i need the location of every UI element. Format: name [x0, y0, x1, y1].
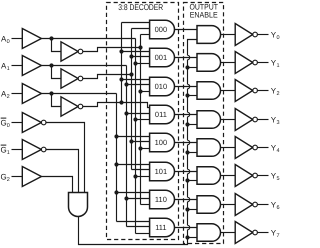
wires: decoder gate 001 input stubs: [122, 52, 150, 64]
wires: decoder gate 111 input stubs: [117, 222, 150, 234]
wires: decoder gate 100 input stubs: [117, 137, 150, 149]
svg-text:3: 3: [277, 120, 280, 126]
inverter A2n: [61, 97, 83, 116]
enable AND gate (3-input, G): [69, 193, 88, 217]
output enable AND gate row Y1: [197, 54, 221, 72]
wires: decoder gate 110 input stubs: [117, 193, 150, 205]
wire decoder 100 output: [175, 142, 198, 144]
wire Y7 output lead: [257, 232, 268, 234]
wire A2 complement line jogging into gate 011 input: [83, 103, 150, 108]
output inverter Y6: [235, 194, 257, 216]
label: input A0: [1, 34, 10, 45]
label: enable input G0 (active low): [1, 118, 10, 129]
wire A1 node to inverter: [52, 66, 62, 79]
wire decoder 101 output: [175, 171, 198, 173]
wire Y3 output lead: [257, 119, 268, 121]
wires: decoder gate 010 input stubs: [122, 80, 150, 92]
node A1 junction dot: [49, 63, 53, 67]
wire G2 to enable AND: [41, 177, 72, 193]
output enable AND gate row Y3: [197, 111, 220, 129]
svg-text:000: 000: [155, 25, 168, 34]
decoder AND gate 000: [150, 20, 175, 39]
decoder AND gate 110: [150, 190, 175, 209]
wires: decoder gate 000 input stubs: [122, 23, 150, 35]
buffer A0 (non-inverting): [22, 29, 41, 49]
label: enable input G1 (active low): [1, 145, 10, 156]
output inverter Y4: [235, 137, 257, 159]
output enable AND gate row Y4: [197, 139, 220, 157]
output inverter Y3: [235, 109, 257, 131]
rail A1 complement (vertical): [131, 29, 133, 170]
label: OUTPUT ENABLE title: [189, 3, 218, 20]
svg-text:G: G: [1, 172, 7, 181]
svg-text:100: 100: [155, 138, 168, 147]
enable rail junction dots: [185, 65, 189, 239]
decoder AND gate 001: [150, 48, 175, 67]
wire A1 input lead: [12, 65, 23, 67]
wires: decoder gate 011 input stubs: [127, 114, 150, 120]
label: output Y3: [271, 115, 280, 126]
wire OE gate Y3 output: [221, 119, 236, 121]
wire OE gate Y6 output: [221, 204, 236, 206]
wire OE gate Y0 output: [221, 34, 236, 36]
wire Y0 output lead: [257, 34, 268, 36]
output inverter Y7: [235, 222, 257, 244]
wire G0 input lead: [12, 122, 23, 124]
label: input A2: [1, 89, 10, 100]
output enable AND gate row Y0: [197, 26, 221, 44]
wire G2 input lead: [12, 176, 23, 178]
output inverter Y2: [235, 80, 257, 102]
label: enable input G2: [1, 172, 10, 183]
rail A0 true junction dots: [133, 61, 137, 178]
inverter A1n: [61, 69, 83, 88]
svg-text:G: G: [1, 118, 7, 127]
output enable AND gate row Y5: [197, 167, 220, 185]
wire A0 input lead: [12, 38, 23, 40]
svg-text:1: 1: [277, 63, 280, 69]
svg-text:0: 0: [7, 39, 10, 45]
svg-text:3:8 DECODER: 3:8 DECODER: [118, 2, 163, 12]
wire decoder 001 output: [175, 57, 198, 59]
wires: decoder gate 101 input stubs: [117, 165, 150, 177]
wire G0 to enable AND: [46, 123, 85, 193]
wire A0 node to inverter: [52, 39, 62, 52]
wire Y5 output lead: [257, 175, 268, 177]
wire decoder 011 output: [175, 114, 198, 116]
wire Y1 output lead: [257, 62, 268, 64]
svg-text:111: 111: [155, 223, 166, 232]
svg-text:011: 011: [155, 110, 167, 119]
rail A0 complement junction dots: [138, 45, 142, 150]
svg-text:110: 110: [155, 195, 167, 204]
label: output Y6: [271, 200, 280, 211]
inverter G0: [22, 113, 46, 133]
wire Y6 output lead: [257, 204, 268, 206]
svg-text:5: 5: [277, 176, 280, 182]
label: output Y1: [271, 58, 280, 69]
svg-text:2: 2: [7, 94, 10, 100]
node A0 junction dot: [49, 36, 53, 40]
decoder AND gate 010: [150, 77, 175, 96]
rail A1 true (vertical): [126, 66, 128, 227]
buffer A1 (non-inverting): [22, 56, 41, 76]
svg-text:ENABLE: ENABLE: [190, 11, 218, 20]
inverter A0n: [61, 42, 83, 61]
wire A0 complement line with jog: [83, 48, 141, 52]
output inverter Y1: [235, 52, 257, 74]
svg-text:7: 7: [277, 233, 280, 239]
decoder AND gate 011: [150, 105, 175, 124]
wire enable AND output to bottom rail: [79, 217, 188, 245]
wire decoder 010 output: [175, 86, 198, 88]
wire OE gate Y4 output: [221, 147, 236, 149]
wire Y2 output lead: [257, 90, 268, 92]
wire OE gate Y1 output: [221, 62, 236, 64]
wires: enable stubs to output AND gates: [188, 68, 198, 238]
wire A2 node to inverter: [52, 94, 62, 107]
svg-text:010: 010: [155, 82, 168, 91]
svg-text:4: 4: [277, 148, 280, 154]
output inverter Y0: [235, 24, 257, 46]
buffer G2: [22, 167, 41, 187]
dashed box: 3:8 decoder section: [107, 3, 179, 240]
svg-text:0: 0: [7, 123, 10, 129]
svg-text:101: 101: [155, 167, 168, 176]
svg-text:2: 2: [7, 177, 10, 183]
wire G1 to enable AND: [46, 150, 79, 193]
dashed box: output enable section: [184, 3, 224, 244]
node A2 junction dot: [49, 91, 53, 95]
rail A1 true junction dots: [124, 82, 128, 200]
decoder AND gate 111: [150, 218, 175, 237]
rail A0 complement (vertical): [140, 35, 142, 205]
inverter G1: [22, 140, 46, 160]
output enable AND gate row Y2: [197, 82, 220, 100]
wire A1 true line to matrix: [41, 65, 126, 67]
wire G1 input lead: [12, 149, 23, 151]
wire decoder 111 output: [175, 227, 198, 229]
output enable AND gate row Y6: [197, 196, 220, 214]
label: input A1: [1, 61, 10, 72]
svg-text:0: 0: [277, 35, 280, 41]
wire decoder 000 output: [175, 29, 198, 31]
wire A1 complement line with jog: [83, 75, 132, 79]
wire A2 true line to matrix: [41, 93, 116, 95]
buffer A2 (non-inverting): [22, 84, 41, 104]
wire OE gate Y7 output: [221, 232, 236, 234]
wire A0 true line to matrix: [41, 38, 135, 40]
label: output Y2: [271, 86, 280, 97]
rail A2 true (vertical): [116, 94, 118, 222]
label: output Y0: [271, 30, 280, 41]
label: output Y7: [271, 228, 280, 239]
svg-text:1: 1: [7, 66, 10, 72]
rail A2 complement junction dots: [119, 49, 123, 104]
label: output Y5: [271, 171, 280, 182]
rail A2 complement (vertical): [121, 23, 123, 103]
wire enable vertical rail with crossover hops: [188, 40, 198, 238]
output enable AND gate row Y7: [197, 224, 220, 242]
wire decoder 110 output: [175, 199, 198, 201]
wire OE gate Y2 output: [221, 90, 236, 92]
rail A0 true (vertical): [135, 39, 137, 234]
rail A1 complement junction dots: [129, 54, 133, 143]
output inverter Y5: [235, 165, 257, 187]
svg-text:G: G: [1, 145, 7, 154]
rail A2 true junction dots: [114, 134, 118, 194]
wire A2 input lead: [12, 93, 23, 95]
decoder AND gate 100: [150, 133, 175, 152]
label: output Y4: [271, 143, 280, 154]
svg-text:1: 1: [7, 150, 10, 156]
svg-text:001: 001: [155, 53, 168, 62]
decoder AND gate 101: [150, 162, 175, 181]
wire OE gate Y5 output: [221, 175, 236, 177]
svg-text:6: 6: [277, 205, 280, 211]
svg-text:2: 2: [277, 91, 280, 97]
wire Y4 output lead: [257, 147, 268, 149]
